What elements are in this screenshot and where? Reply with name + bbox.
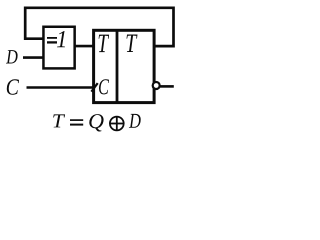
inversion bubble on Q-bar output [153, 82, 160, 89]
node D input label [6, 50, 18, 63]
flip-flop U2 (T trigger box) [94, 30, 155, 102]
formula D [129, 114, 141, 128]
formula Q [89, 114, 103, 131]
divider between control and output sections [116, 29, 119, 104]
pin label T (left cell) [99, 35, 110, 53]
dynamic clock input marker (slash) [91, 83, 97, 92]
XOR gate U1 (=1 box) [43, 27, 74, 69]
label T (right cell) [126, 34, 137, 52]
wire: feedback loop from Q stub, up right side, across top, down left into XOR top input [25, 8, 173, 46]
wire: XOR output to T input of flip-flop [75, 45, 94, 48]
formula T [53, 114, 65, 127]
wire: C input to flip-flop clock [27, 86, 93, 89]
formula: equals sign [70, 120, 83, 125]
label 1 of =1 [57, 31, 65, 47]
label = of =1 [47, 38, 57, 43]
wire: Q-bar output [160, 85, 174, 88]
node C input label [7, 79, 19, 94]
pin label C (clock input) [99, 79, 109, 94]
wire: D input to XOR [23, 56, 44, 59]
formula: xor symbol (circled plus) [110, 117, 124, 131]
